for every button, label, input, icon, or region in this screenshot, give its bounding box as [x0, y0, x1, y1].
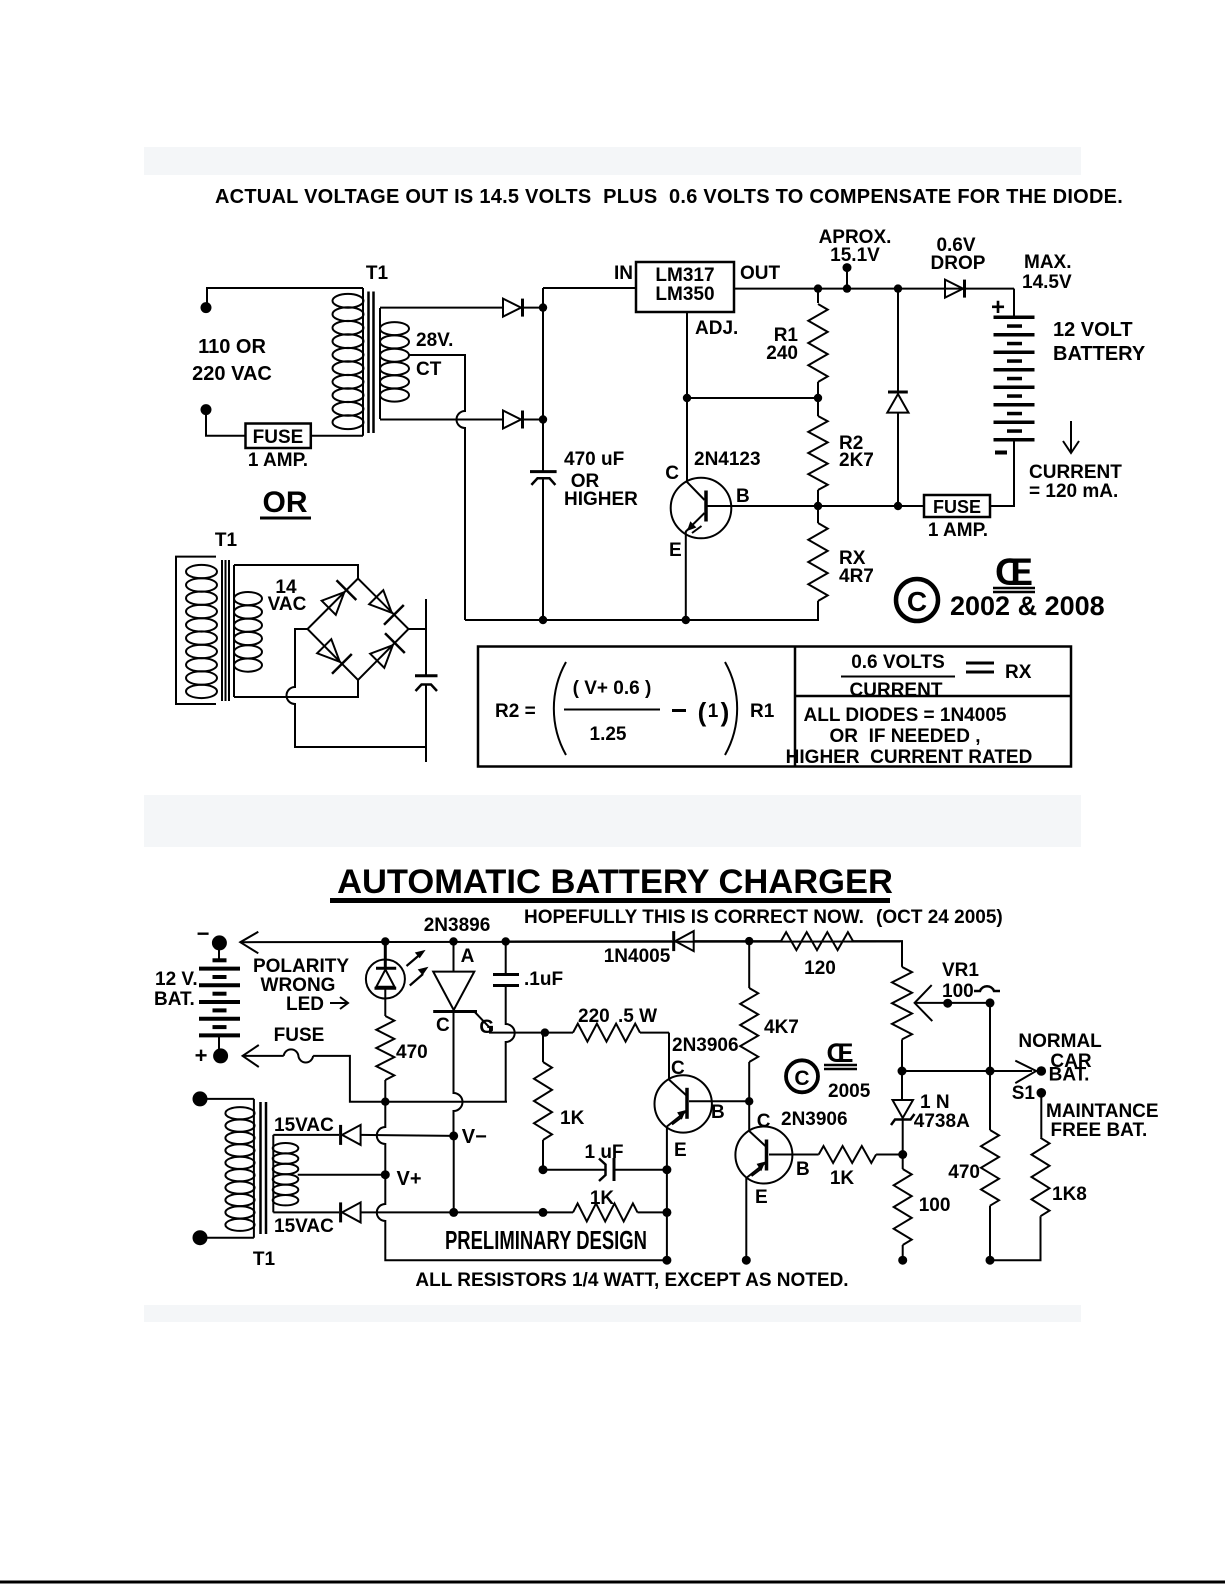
svg-text:470: 470 — [396, 1042, 428, 1063]
wire: E line down to rail — [666, 1170, 668, 1261]
svg-text:PRELIMINARY DESIGN: PRELIMINARY DESIGN — [445, 1226, 647, 1255]
node: approx voltage probe stub — [846, 268, 848, 289]
transformer T1b secondary winding — [233, 565, 235, 697]
svg-text:R2 =: R2 = — [495, 701, 536, 722]
node: cathode to bottom 15VAC wire — [449, 1208, 458, 1217]
transformer T1 secondary winding — [379, 308, 381, 419]
wire: secondary bottom to diode D7 — [273, 1211, 339, 1213]
svg-text:1 N: 1 N — [920, 1092, 950, 1113]
svg-text:2K7: 2K7 — [839, 450, 874, 471]
svg-text:15.1V: 15.1V — [830, 245, 880, 266]
svg-text:1 AMP.: 1 AMP. — [928, 520, 988, 541]
svg-text:OR: OR — [263, 486, 308, 519]
resistor R 470 (LED) — [376, 1016, 394, 1080]
svg-text:ALL RESISTORS 1/4 WATT, EXCEPT: ALL RESISTORS 1/4 WATT, EXCEPT AS NOTED. — [415, 1270, 848, 1291]
background bar lower — [144, 1305, 1081, 1322]
svg-text:4K7: 4K7 — [764, 1017, 799, 1038]
battery terminal plus — [213, 1048, 228, 1063]
svg-text:1K: 1K — [830, 1168, 855, 1189]
svg-text:LM350: LM350 — [655, 284, 714, 305]
svg-text:V+: V+ — [397, 1168, 422, 1190]
svg-text:12 V.: 12 V. — [155, 969, 198, 990]
wire: secondary bottom to bridge — [234, 680, 358, 697]
svg-text:(: ( — [698, 697, 707, 727]
svg-text:1 AMP.: 1 AMP. — [248, 450, 308, 471]
svg-text:FREE BAT.: FREE BAT. — [1051, 1120, 1148, 1141]
terminal node: AC line 2 — [201, 404, 212, 415]
svg-text:VAC: VAC — [268, 594, 307, 615]
node: fuse/LED/470 junction — [381, 1098, 389, 1106]
wire: battery minus down to fuse F2 — [990, 440, 1014, 506]
svg-text:R1: R1 — [750, 701, 775, 722]
background bar top — [144, 147, 1081, 175]
wire: secondary bottom to diode D2 — [380, 419, 503, 421]
node: E to rail — [662, 1256, 671, 1265]
wire: fuse to V+ feed — [313, 1056, 507, 1102]
svg-text:1.25: 1.25 — [590, 724, 627, 745]
svg-text:2N3896: 2N3896 — [424, 915, 491, 936]
capacitor C4 1uF — [543, 1169, 606, 1171]
svg-text:+: + — [195, 1043, 208, 1068]
wire: diode D7 to V- rail — [361, 1211, 543, 1213]
wire: center tap to V+ — [298, 1174, 386, 1176]
resistor R 1K8 — [1032, 1138, 1050, 1216]
node: 15VAC/1K junction — [539, 1208, 548, 1217]
svg-text:V−: V− — [462, 1126, 487, 1148]
wire: plus arrow to fuse — [243, 1045, 259, 1067]
node: 100 to rail — [898, 1256, 907, 1265]
svg-text:220: 220 — [578, 1006, 610, 1027]
fuse F2 box — [924, 495, 990, 517]
node: 1uF right/E — [662, 1165, 671, 1174]
svg-text:B: B — [736, 486, 750, 507]
resistor R 4K7 — [748, 941, 750, 988]
wire: DC bus vertical — [542, 288, 544, 471]
diode D8 1N4005 — [672, 931, 675, 951]
node: gate/220/1K junction — [541, 1028, 549, 1036]
svg-text:.5 W: .5 W — [618, 1006, 657, 1027]
transformer T1 core — [367, 292, 370, 434]
wire: OUT rail — [734, 288, 1014, 290]
SCR gate wire — [474, 1012, 545, 1033]
label battery minus — [995, 451, 1007, 455]
node: 1K/E junction — [662, 1208, 671, 1217]
capacitor C3 .1uF — [505, 942, 507, 975]
regulator U1 LM317/LM350 box — [636, 262, 734, 312]
wire: Q2 collector down from junction to Q3 — [748, 1101, 750, 1130]
svg-text:220 VAC: 220 VAC — [192, 363, 272, 385]
battery B2 12V — [218, 950, 220, 960]
svg-text:FUSE: FUSE — [933, 497, 981, 517]
node: zener/1K junction — [898, 1150, 907, 1159]
bridge rectifier diamond — [308, 579, 409, 681]
terminal node: AC in bottom — [193, 1230, 208, 1245]
wire: ADJ to divider — [686, 312, 688, 398]
svg-text:C: C — [907, 586, 927, 617]
wire: V+ line down with hops — [377, 1102, 386, 1166]
transformer T1b core — [221, 560, 223, 701]
resistor R1 240 — [817, 289, 819, 303]
svg-text:2002 & 2008: 2002 & 2008 — [950, 591, 1105, 621]
zener D9 1N4738A — [901, 1071, 903, 1100]
svg-text:110 OR: 110 OR — [198, 336, 266, 358]
svg-text:C: C — [436, 1015, 450, 1036]
svg-text:.1uF: .1uF — [524, 969, 563, 990]
svg-text:−: − — [197, 921, 210, 946]
formula box — [478, 647, 1071, 767]
wire: secondary top to bridge — [234, 565, 358, 579]
svg-text:RX: RX — [1005, 662, 1032, 683]
diode D7 — [339, 1202, 342, 1222]
svg-text:2N3906: 2N3906 — [672, 1035, 739, 1056]
transformer T1b primary winding — [186, 565, 217, 578]
resistor R2 2K7 — [817, 398, 819, 416]
svg-text:1 uF: 1 uF — [584, 1142, 623, 1163]
svg-text:470 uF: 470 uF — [564, 449, 624, 470]
svg-text:S1: S1 — [1012, 1083, 1036, 1104]
svg-text:BAT.: BAT. — [1049, 1065, 1090, 1086]
svg-text:15VAC: 15VAC — [274, 1115, 334, 1136]
svg-text:ADJ.: ADJ. — [695, 318, 738, 339]
resistor RX 4R7 — [817, 506, 819, 523]
node: VR1 bottom junction — [898, 1067, 907, 1076]
node: Q3 emitter to rail — [742, 1256, 751, 1265]
capacitor C1 470uF — [530, 470, 557, 473]
svg-text:(OCT 24 2005): (OCT 24 2005) — [876, 907, 1003, 928]
svg-text:WRONG: WRONG — [261, 975, 336, 996]
svg-text:FUSE: FUSE — [253, 427, 304, 448]
svg-text:Œ: Œ — [827, 1038, 854, 1068]
svg-text:2N4123: 2N4123 — [694, 449, 761, 470]
svg-text:MAINTANCE: MAINTANCE — [1046, 1101, 1159, 1122]
bridge diode BR4 (lower-right arm) — [367, 633, 404, 670]
bridge diode BR2 (upper-right arm) — [366, 587, 403, 624]
svg-text:POLARITY: POLARITY — [253, 956, 349, 977]
svg-text:A: A — [461, 946, 475, 967]
node: 1K/1uF junction — [539, 1165, 548, 1174]
node: ADJ junction — [683, 394, 691, 402]
resistor R 220 .5W — [545, 1032, 573, 1034]
resistor R 1K (vertical) — [542, 1033, 544, 1062]
node: 470 to rail — [986, 1256, 995, 1265]
diode D1 — [503, 299, 521, 317]
svg-text:( V+ 0.6 ): ( V+ 0.6 ) — [573, 678, 652, 699]
bottom page rule — [0, 1581, 1225, 1584]
current arrow — [1070, 421, 1072, 452]
wire: secondary top to diode D1 — [380, 307, 503, 309]
svg-text:1: 1 — [708, 701, 719, 722]
svg-text:0.6 VOLTS: 0.6 VOLTS — [851, 652, 945, 673]
svg-text:ALL DIODES = 1N4005: ALL DIODES = 1N4005 — [804, 705, 1007, 726]
svg-text:4R7: 4R7 — [839, 566, 874, 587]
transistor Q2 2N3906 — [668, 1033, 670, 1079]
wire: wiper down to select wire — [989, 1003, 991, 1071]
svg-text:1N4005: 1N4005 — [604, 946, 671, 967]
node: 4K7 top — [745, 937, 753, 945]
svg-text:LED: LED — [286, 994, 324, 1015]
svg-text:): ) — [721, 697, 730, 727]
svg-text:HIGHER: HIGHER — [564, 489, 638, 510]
svg-text:2N3906: 2N3906 — [781, 1109, 848, 1130]
svg-text:T1: T1 — [253, 1249, 276, 1270]
node: zener bottom — [894, 502, 902, 510]
svg-text:T1: T1 — [215, 530, 238, 551]
wire: bridge left to hop and down — [287, 629, 427, 747]
VR1 wiper arrow — [915, 985, 933, 1021]
svg-text:DROP: DROP — [931, 253, 986, 274]
svg-text:MAX.: MAX. — [1024, 252, 1072, 273]
wire: minus arrow to top rail — [240, 932, 258, 954]
svg-text:B: B — [711, 1102, 725, 1123]
svg-text:C: C — [665, 463, 679, 484]
svg-text:T1: T1 — [366, 263, 389, 284]
node: OUT/zener — [894, 284, 902, 292]
node: base/R2/RX — [814, 502, 822, 510]
svg-text:IN: IN — [614, 263, 633, 284]
transistor Q3 2N3906 — [735, 1127, 792, 1184]
LED light arrows — [407, 955, 421, 967]
transformer T2 core — [259, 1102, 262, 1234]
diode D6 — [339, 1125, 342, 1145]
svg-text:AUTOMATIC BATTERY CHARGER: AUTOMATIC BATTERY CHARGER — [337, 863, 893, 901]
svg-text:C: C — [671, 1058, 685, 1079]
wire: CT tap with hop over secondary bottom wire — [409, 355, 465, 620]
fuse F3 symbol — [284, 1049, 313, 1062]
wire: maintance terminal down to 1K8 — [1040, 1093, 1042, 1138]
node V+ — [381, 1170, 390, 1179]
wire: IN to regulator — [543, 287, 636, 289]
svg-text:CURRENT: CURRENT — [1029, 462, 1122, 483]
svg-text:LM317: LM317 — [655, 265, 714, 286]
bridge diode BR3 (lower-left arm) — [314, 636, 351, 673]
node: MAINTANCE FREE terminal — [1037, 1088, 1047, 1098]
resistor R 1K (Q3 base) — [769, 1154, 819, 1156]
wire: bridge right to cap C2 — [409, 628, 427, 630]
copyright 2005 — [786, 1060, 818, 1092]
svg-text:BAT.: BAT. — [154, 989, 195, 1010]
svg-text:100: 100 — [942, 981, 974, 1002]
wire: AC hot to transformer primary top — [207, 288, 363, 307]
copyright symbol — [896, 579, 938, 621]
svg-text:E: E — [669, 540, 682, 561]
battery terminal minus — [212, 935, 227, 950]
svg-text:VR1: VR1 — [942, 960, 979, 981]
background bar middle — [144, 795, 1081, 847]
fuse F1 box — [246, 424, 311, 449]
node: rectifier output bottom — [539, 415, 547, 423]
svg-text:120: 120 — [804, 958, 836, 979]
svg-text:HOPEFULLY THIS IS CORRECT NOW.: HOPEFULLY THIS IS CORRECT NOW. — [524, 907, 864, 928]
SCR cathode with hop over fuse wire — [454, 1012, 463, 1136]
svg-text:B: B — [796, 1159, 810, 1180]
node: OUT/R1 — [814, 284, 822, 292]
svg-text:E: E — [755, 1187, 768, 1208]
node V- — [449, 1131, 458, 1140]
svg-text:NORMAL: NORMAL — [1018, 1031, 1102, 1052]
wire: secondary top to diode D6 — [273, 1134, 339, 1136]
LED D5 polarity indicator — [384, 942, 387, 969]
bridge diode BR1 (upper-left arm) — [319, 580, 356, 617]
transformer T1b primary open bracket — [176, 557, 216, 704]
wire: diode to battery plus — [1013, 289, 1015, 317]
wire: select wire to S1 arrow — [902, 1070, 1032, 1072]
wire: base rail to fuse F2 — [733, 505, 924, 507]
svg-text:ACTUAL VOLTAGE OUT IS 14.5 VOL: ACTUAL VOLTAGE OUT IS 14.5 VOLTS PLUS 0.… — [215, 186, 1123, 208]
resistor R 1K (horizontal) — [543, 1211, 573, 1213]
SCR Q4 2N3896 — [453, 942, 455, 972]
node: rectifier output top — [539, 303, 547, 311]
svg-text:15VAC: 15VAC — [274, 1216, 334, 1237]
terminal node: AC line 1 — [201, 302, 212, 313]
svg-text:OR IF NEEDED ,: OR IF NEEDED , — [830, 726, 981, 747]
node: SCR anode — [449, 937, 457, 945]
wire: AC line 2 down to fuse — [206, 410, 246, 436]
zener/diode D4 shunt — [897, 289, 899, 392]
svg-text:1K8: 1K8 — [1052, 1184, 1087, 1205]
svg-text:1K: 1K — [590, 1188, 615, 1209]
wire: diode D6 to V- (passes under hop) — [361, 1135, 454, 1136]
svg-text:BATTERY: BATTERY — [1053, 343, 1146, 365]
transformer T2 primary winding — [253, 1099, 255, 1238]
capacitor C2 (bridge filter) — [425, 599, 427, 676]
terminal node: AC in top — [193, 1091, 208, 1106]
svg-text:HIGHER CURRENT RATED: HIGHER CURRENT RATED — [786, 747, 1033, 768]
diode D3 series — [945, 280, 963, 298]
potentiometer VR1 100 — [892, 967, 912, 1040]
svg-text:OUT: OUT — [740, 263, 781, 284]
svg-text:2005: 2005 — [828, 1081, 871, 1102]
transformer T2 secondary winding — [272, 1135, 274, 1213]
svg-text:28V.: 28V. — [416, 330, 453, 351]
battery B1 12V — [994, 316, 1035, 320]
transistor Q1 2N4123 — [686, 398, 688, 480]
svg-text:470: 470 — [948, 1162, 980, 1183]
node: NORMAL CAR BAT terminal — [1037, 1066, 1047, 1076]
svg-text:240: 240 — [766, 343, 798, 364]
resistor R 120 — [749, 940, 781, 942]
svg-text:4738A: 4738A — [914, 1111, 970, 1132]
resistor R 470 (right) — [989, 1071, 991, 1130]
transformer T1 primary winding — [362, 288, 364, 436]
svg-text:CURRENT: CURRENT — [850, 680, 943, 701]
node: wiper/select junction — [986, 1067, 995, 1076]
diode D2 — [503, 411, 521, 429]
node: LED top — [381, 937, 389, 945]
svg-text:E: E — [674, 1140, 687, 1161]
svg-text:= 120 mA.: = 120 mA. — [1029, 481, 1118, 502]
node: base junction Q2 — [745, 1097, 753, 1105]
wire: Q2 base to junction — [689, 1100, 749, 1102]
svg-text:14.5V: 14.5V — [1022, 272, 1072, 293]
node: .1uF top — [502, 937, 510, 945]
svg-text:C: C — [757, 1111, 771, 1132]
svg-text:12 VOLT: 12 VOLT — [1053, 319, 1133, 341]
svg-text:100: 100 — [919, 1195, 951, 1216]
node: cap to ground rail — [539, 616, 547, 624]
svg-text:C: C — [794, 1067, 809, 1090]
wire: fuse to primary bottom — [311, 435, 363, 437]
svg-text:1K: 1K — [560, 1108, 585, 1129]
resistor R 100 — [902, 1155, 904, 1170]
svg-text:FUSE: FUSE — [274, 1025, 325, 1046]
node: emitter to rail — [682, 616, 690, 624]
svg-text:CT: CT — [416, 359, 442, 380]
